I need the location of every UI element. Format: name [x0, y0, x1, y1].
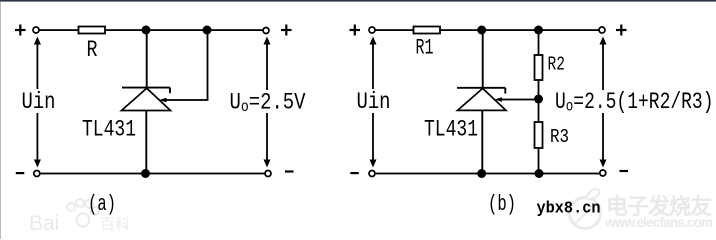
svg-text:Bai: Bai [29, 212, 59, 235]
voltage arrow Uo (b) [600, 37, 607, 168]
wire bottom (b) [376, 173, 600, 175]
node anode junction bottom (b) [477, 169, 486, 178]
wire ref to divider (b) [495, 97, 539, 102]
svg-text:Uin: Uin [22, 89, 56, 115]
svg-text:Uin: Uin [357, 89, 391, 115]
wire top (a): terminal to R [40, 29, 79, 31]
wire divider: R3 to bottom [538, 148, 540, 174]
wire divider top: node to R2 [538, 30, 540, 55]
svg-text:R3: R3 [550, 126, 569, 148]
resistor R3 [535, 122, 543, 148]
terminal + input (a) [15, 25, 39, 36]
wire divider: mid node to R3 [538, 99, 540, 122]
terminal - output (b) [600, 170, 628, 176]
terminal + input (b) [350, 25, 376, 36]
wire ref feedback (a) [159, 30, 208, 102]
node divider mid (b) [534, 95, 543, 104]
node ref junction top (a) [203, 26, 212, 35]
wire top (b): R1 to output terminal [440, 29, 599, 31]
svg-text:www.elecfans.com: www.elecfans.com [604, 215, 713, 230]
wire divider: R2 to mid node [538, 80, 540, 99]
terminal - input (b) [350, 171, 375, 177]
resistor R1 [414, 27, 441, 34]
node divider junction bottom (b) [535, 169, 544, 178]
wire top (b): terminal to R1 [376, 29, 414, 31]
node divider junction top (b) [534, 26, 543, 35]
resistor R2 [535, 55, 543, 80]
svg-text:R: R [87, 37, 98, 63]
svg-text:R1: R1 [416, 36, 434, 61]
watermark elecfans logo [570, 189, 601, 229]
svg-text:百科: 百科 [100, 216, 130, 233]
terminal - output (a) [265, 170, 294, 176]
node anode junction bottom (a) [141, 169, 150, 178]
TL431 U2 (b) symbol [457, 30, 506, 174]
voltage arrow Uo (a) [264, 37, 271, 168]
terminal + output (a) [263, 25, 292, 36]
terminal - input (a) [16, 171, 40, 177]
wire bottom (a) [40, 173, 265, 175]
svg-text:Uo=2.5(1+R2/R3): Uo=2.5(1+R2/R3) [555, 89, 714, 116]
svg-text:TL431: TL431 [82, 117, 136, 143]
svg-text:ybx8.cn: ybx8.cn [537, 200, 601, 219]
voltage arrow Uin (a) [34, 37, 41, 168]
watermark baidu paw logo [67, 199, 99, 227]
node cathode junction top (a) [142, 26, 151, 35]
wire top (a): R to output terminal [105, 29, 263, 31]
voltage arrow Uin (b) [370, 37, 377, 168]
svg-text:(a): (a) [88, 192, 116, 217]
terminal + output (b) [599, 25, 627, 36]
svg-text:R2: R2 [548, 54, 566, 76]
svg-text:TL431: TL431 [424, 117, 478, 143]
svg-text:(b): (b) [488, 192, 516, 217]
node cathode junction top (b) [477, 26, 486, 35]
resistor R [79, 27, 106, 34]
TL431 U1 (a) symbol [122, 30, 171, 174]
